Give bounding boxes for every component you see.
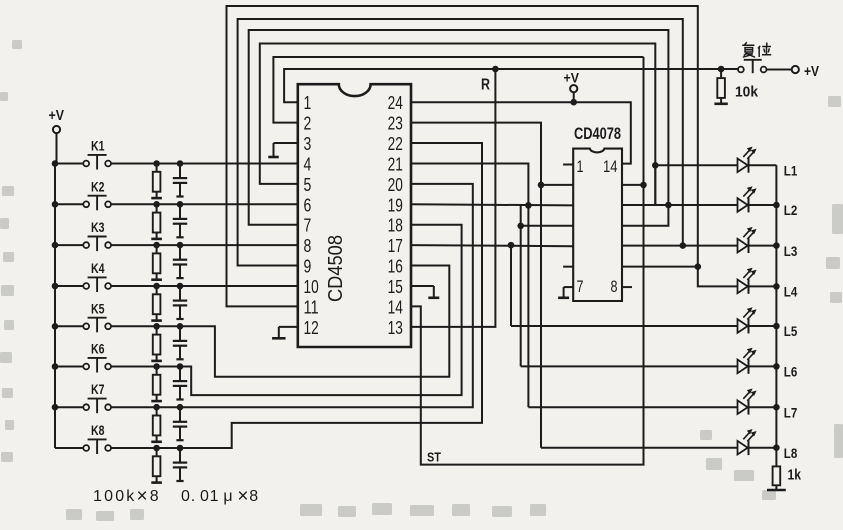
svg-text:15: 15	[388, 277, 403, 297]
svg-text:20: 20	[388, 175, 403, 195]
svg-text:L4: L4	[784, 284, 798, 300]
svg-text:24: 24	[388, 93, 403, 113]
pin 17 label (CD4508)	[388, 236, 403, 256]
wire LED L3 row / CD4078 pin10 stub	[622, 242, 737, 249]
pushbutton switch K8	[55, 422, 111, 454]
svg-text:+V: +V	[804, 63, 819, 80]
pin 24 label (CD4508)	[388, 93, 403, 113]
svg-text:1: 1	[304, 93, 312, 113]
LED L8	[738, 429, 798, 461]
pin 9 label (CD4508)	[304, 257, 312, 277]
net R: CD4508 pin1 over the top	[284, 69, 738, 102]
LED L1	[738, 147, 798, 179]
wire K7 row to CD4508 pin 20	[111, 184, 473, 407]
wire LED L7 row	[528, 406, 737, 408]
svg-text:7: 7	[304, 216, 312, 236]
svg-text:K8: K8	[91, 422, 105, 438]
svg-text:1: 1	[577, 157, 584, 176]
svg-text:3: 3	[304, 134, 312, 154]
junction LED bus / L3	[773, 242, 780, 249]
svg-text:+V: +V	[564, 70, 580, 86]
wire R vertical to CD4508 pin 13	[411, 69, 495, 327]
svg-text:14: 14	[388, 297, 403, 317]
net ST: CD4508 pin2 over the top	[273, 57, 643, 123]
pin 8 label (CD4078)	[611, 277, 618, 296]
pin 13 label (CD4508)	[388, 318, 403, 338]
wire CD4508 pin24 to CD4078 pin14 (+V rail)	[411, 102, 631, 163]
wire LED L1 row from over-the-top net	[622, 162, 737, 205]
wire K1 row to CD4508 pin 4	[111, 163, 298, 165]
pushbutton switch 复位 (reset)	[738, 60, 766, 73]
node R label	[481, 77, 490, 94]
wire CD4508 pin17 row into CD4078 pin5	[411, 245, 573, 246]
svg-text:CD4508: CD4508	[325, 235, 347, 302]
ground at CD4508 pin 3	[268, 143, 298, 157]
pin 4 label (CD4508)	[304, 154, 312, 174]
pin 20 label (CD4508)	[388, 175, 403, 195]
capacitor C1 (0.01u)	[173, 160, 187, 196]
capacitor C2 (0.01u)	[173, 201, 187, 237]
pin 11 label (CD4508)	[304, 297, 319, 317]
pin 12 label (CD4508)	[304, 318, 319, 338]
svg-text:19: 19	[388, 195, 403, 215]
svg-text:K2: K2	[91, 178, 105, 194]
pin 18 label (CD4508)	[388, 216, 403, 236]
svg-text:CD4078: CD4078	[574, 124, 621, 143]
svg-text:4: 4	[304, 154, 312, 174]
LED L4	[738, 268, 798, 300]
wire LED cathode bus	[775, 165, 777, 448]
resistor R4 (100k)	[151, 283, 162, 321]
ground at CD4508 pin 15	[411, 286, 439, 298]
svg-text:100k×8: 100k×8	[93, 486, 161, 507]
power +V terminal (middle)	[564, 70, 580, 103]
pushbutton switch K4	[55, 260, 111, 292]
pin 19 label (CD4508)	[388, 195, 403, 215]
resistor R1 (100k)	[151, 160, 162, 198]
IC U2 CD4078 8-input NOR gate body	[573, 124, 622, 301]
pin 1 label (CD4078)	[577, 157, 584, 176]
pin 22 label (CD4508)	[388, 134, 403, 154]
capacitor C8 (0.01u)	[173, 445, 187, 481]
svg-text:L8: L8	[784, 445, 798, 461]
wire K4 row to CD4508 pin 10	[111, 285, 298, 287]
junction LED bus / L6	[773, 363, 780, 370]
svg-text:ST: ST	[427, 450, 441, 465]
junction LED bus / L8	[773, 444, 780, 451]
value label 0.01u x8	[181, 486, 259, 507]
svg-text:8: 8	[611, 277, 618, 296]
svg-text:2: 2	[304, 114, 312, 134]
pin 6 stub (CD4078)	[563, 266, 573, 268]
capacitor C3 (0.01u)	[173, 242, 187, 278]
svg-text:K4: K4	[91, 260, 105, 276]
wire K8 row to CD4508 pin 22	[111, 143, 482, 448]
junction +V bus / K2	[52, 201, 59, 208]
svg-text:10k: 10k	[735, 84, 759, 101]
wire CD4508 pin5 to LED L1 (over top)	[260, 44, 656, 206]
LED L5	[738, 307, 798, 339]
resistor R7 (100k)	[151, 404, 162, 442]
svg-text:14: 14	[603, 157, 618, 176]
svg-text:11: 11	[304, 297, 319, 317]
junction ST / CD4078 pin13 stub	[622, 182, 647, 189]
wire K6 row to CD4508 pin 18	[111, 225, 461, 395]
resistor R8 (100k)	[151, 445, 162, 483]
wire CD4508 pin21 to CD4078 pin3 and LED L7	[411, 163, 532, 407]
wire CD4508 pin23 to CD4078 pin2 and LED L8	[411, 123, 573, 448]
junction LED bus / L5	[773, 323, 780, 330]
wire LED L4 row	[698, 267, 738, 287]
pushbutton switch K3	[55, 219, 111, 251]
svg-text:K7: K7	[91, 381, 105, 397]
resistor R5 (100k)	[151, 323, 162, 361]
svg-text:10: 10	[304, 277, 319, 297]
pin 7 label (CD4508)	[304, 216, 312, 236]
wire CD4078 pin4 branch down to LED L6 row	[517, 204, 573, 366]
svg-text:L6: L6	[784, 364, 798, 380]
power +V terminal (left)	[49, 107, 65, 164]
svg-text:8: 8	[304, 236, 312, 256]
pin 15 label (CD4508)	[388, 277, 403, 297]
pin 7 label (CD4078)	[577, 277, 584, 296]
svg-text:L7: L7	[784, 404, 798, 420]
capacitor C6 (0.01u)	[173, 363, 187, 399]
pin 6 label (CD4508)	[304, 195, 312, 215]
pin 1 label (CD4508)	[304, 93, 312, 113]
wire K2 row to CD4508 pin 6	[111, 203, 298, 205]
wire branch down to LED L5 row	[508, 242, 515, 326]
pushbutton switch K7	[55, 381, 111, 413]
pin 8 label (CD4508)	[304, 236, 312, 256]
svg-text:L3: L3	[784, 243, 798, 259]
capacitor C5 (0.01u)	[173, 323, 187, 359]
svg-text:R: R	[481, 77, 490, 94]
svg-text:K6: K6	[91, 341, 105, 357]
svg-text:12: 12	[304, 318, 319, 338]
pushbutton switch K2	[55, 178, 111, 210]
junction +V bus / K5	[52, 323, 59, 330]
ground at CD4078 pin 7	[558, 287, 573, 298]
svg-text:L5: L5	[784, 323, 798, 339]
wire K5 row to CD4508 pin 16	[111, 266, 449, 377]
capacitor C4 (0.01u)	[173, 283, 187, 319]
wire LED L6 row	[521, 365, 738, 367]
svg-text:9: 9	[304, 257, 312, 277]
wire LED L5 row	[511, 325, 737, 327]
junction +V bus / K4	[52, 283, 59, 290]
junction R line	[492, 66, 499, 73]
wire +V bus (left key common)	[54, 164, 56, 449]
svg-text:23: 23	[388, 114, 403, 134]
svg-text:K3: K3	[91, 219, 105, 235]
LED L2	[738, 186, 798, 218]
junction LED bus / L2	[773, 202, 780, 209]
wire LED L2 row / CD4078 pin12 stub	[622, 202, 737, 209]
svg-text:17: 17	[388, 236, 403, 256]
wire CD4078 pin9 stub	[622, 263, 701, 270]
wire CD4508 pin19 row into CD4078 pin3	[411, 204, 573, 205]
pushbutton switch K1	[55, 138, 111, 170]
svg-text:+V: +V	[49, 107, 65, 124]
pin 21 label (CD4508)	[388, 154, 403, 174]
LED L6	[738, 348, 798, 380]
pin 3 label (CD4508)	[304, 134, 312, 154]
junction LED bus / L7	[773, 404, 780, 411]
junction +V bus / K1	[52, 160, 59, 167]
svg-text:5: 5	[304, 175, 312, 195]
pin 5 label (CD4508)	[304, 175, 312, 195]
wire CD4508 pin11 to LED L4 (over top)	[227, 6, 698, 306]
pushbutton switch K5	[55, 300, 111, 332]
svg-text:1k: 1k	[788, 467, 802, 484]
pin 10 label (CD4508)	[304, 277, 319, 297]
svg-text:K1: K1	[91, 138, 105, 154]
wire CD4508 pin7 to LED L2 (over top)	[249, 30, 669, 225]
LED L3	[738, 227, 798, 259]
value label 100k x8	[93, 486, 161, 507]
pin 14 label (CD4508)	[388, 297, 403, 317]
svg-text:21: 21	[388, 154, 403, 174]
pin 1 stub (CD4078)	[563, 164, 573, 166]
wire CD4078 pin11 stub	[622, 205, 668, 226]
svg-text:18: 18	[388, 216, 403, 236]
svg-text:L1: L1	[784, 163, 798, 179]
svg-text:6: 6	[304, 195, 312, 215]
svg-text:K5: K5	[91, 300, 105, 316]
wire ST: CD4078 pin13 down to CD4508 pin14	[411, 57, 644, 465]
resistor R10 (10k) reset pull	[714, 66, 758, 104]
capacitor C7 (0.01u)	[173, 404, 187, 440]
pin 23 label (CD4508)	[388, 114, 403, 134]
wire LED L8 row	[541, 447, 737, 449]
svg-text:L2: L2	[784, 202, 798, 218]
svg-text:0. 01 μ ×8: 0. 01 μ ×8	[181, 486, 259, 507]
pin 14 label (CD4078)	[603, 157, 618, 176]
resistor R6 (100k)	[151, 363, 162, 401]
resistor R9 (1k) at LED bus	[767, 448, 802, 490]
label 复位 (reset) as drawn glyphs	[742, 42, 771, 57]
junction +V bus / K7	[52, 404, 59, 411]
wire K3 row to CD4508 pin 8	[111, 244, 298, 246]
pin 2 label (CD4508)	[304, 114, 312, 134]
junction +V bus / K3	[52, 242, 59, 249]
node ST label	[427, 450, 441, 465]
svg-text:13: 13	[388, 318, 403, 338]
wire CD4508 pin9 to LED L3 (over top)	[238, 19, 683, 266]
svg-text:16: 16	[388, 257, 403, 277]
svg-text:7: 7	[577, 277, 584, 296]
pushbutton switch K6	[55, 341, 111, 373]
ground at CD4508 pin 12	[272, 327, 298, 338]
junction +V bus / K6	[52, 363, 59, 370]
junction +V rail	[570, 99, 577, 106]
power +V terminal (reset, right)	[767, 63, 819, 80]
pin 16 label (CD4508)	[388, 257, 403, 277]
resistor R2 (100k)	[151, 201, 162, 239]
LED L7	[738, 389, 798, 421]
resistor R3 (100k)	[151, 242, 162, 280]
pin 8 stub (CD4078)	[622, 286, 632, 288]
svg-text:22: 22	[388, 134, 403, 154]
junction LED bus / L4	[773, 283, 780, 290]
IC U1 CD4508 dual 4-bit latch	[298, 84, 411, 347]
